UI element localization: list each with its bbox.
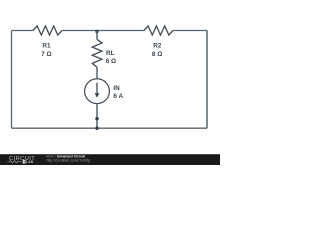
label R1 value 7 ohm — [41, 51, 51, 58]
svg-text:7 Ω: 7 Ω — [41, 51, 51, 58]
node A junction dot on top wire — [95, 30, 98, 33]
svg-text:R2: R2 — [153, 43, 162, 50]
wire top-left segment — [12, 30, 34, 32]
label RL designator — [106, 50, 115, 57]
resistor R1 — [33, 26, 62, 35]
wire RL branch top lead — [96, 31, 98, 40]
label R2 value 8 ohm — [152, 51, 162, 58]
label R1 designator — [42, 43, 51, 50]
label IN designator — [113, 85, 120, 92]
svg-text:6 A: 6 A — [113, 93, 123, 100]
current source IN — [85, 79, 110, 104]
svg-text:LAB: LAB — [26, 160, 34, 164]
svg-text:R1: R1 — [42, 43, 51, 50]
watermark strip — [0, 154, 220, 165]
wire left side — [11, 31, 13, 129]
svg-text:RL: RL — [106, 50, 115, 57]
wire current source bottom lead — [96, 104, 98, 129]
svg-text:6 Ω: 6 Ω — [106, 58, 116, 65]
svg-text:IN: IN — [113, 85, 120, 92]
svg-text:8 Ω: 8 Ω — [152, 51, 162, 58]
wire bottom — [12, 127, 208, 129]
label IN value 6 A — [113, 93, 123, 100]
wire top-right segment — [173, 30, 207, 32]
resistor RL — [92, 39, 102, 67]
wire RL to current source — [96, 67, 98, 79]
resistor R2 — [144, 26, 173, 35]
node B junction dot on bottom lead — [95, 117, 98, 120]
node C junction dot on bottom wire — [95, 127, 98, 130]
wire top-middle segment — [62, 30, 144, 32]
label RL value 6 ohm — [106, 58, 116, 65]
label R2 designator — [153, 43, 162, 50]
svg-text:http://circuitlab.com/c7u39fg: http://circuitlab.com/c7u39fg — [47, 159, 91, 163]
wire right side — [206, 31, 208, 129]
